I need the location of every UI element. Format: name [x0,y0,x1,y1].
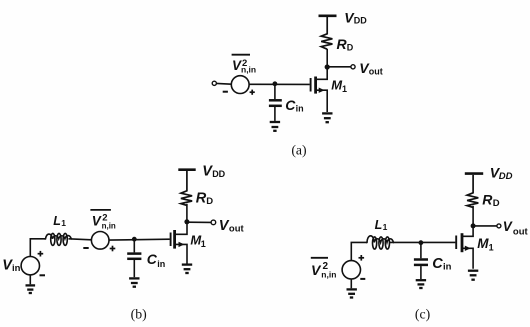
label M1 (b) [190,233,205,250]
svg-text:D: D [347,42,354,52]
svg-text:in: in [157,259,165,269]
svg-text:1: 1 [201,239,206,249]
label M1 (c) [477,236,493,253]
wire noise source to gate with node (b) [109,238,170,241]
ground at noise source (c) [347,289,357,297]
label L1 (c) [375,218,388,232]
capacitor Cin (b) [127,240,141,277]
svg-text:R: R [196,190,207,206]
label VDD (c) [490,164,513,182]
ground at M1 source (b) [182,265,192,273]
noise voltage source Vn,in (b) [91,232,109,250]
node at Cin (c) [419,240,424,245]
label - polarity (c) [360,278,365,280]
wire inductor to noise source (b) [69,239,92,240]
wire resistor to node (c) [472,206,474,225]
wire node to Vout terminal (b) [187,221,211,223]
label L1 (b) [53,214,66,228]
voltage source Vin (b) [21,257,39,275]
Vout terminal (c) [497,224,501,228]
svg-text:1: 1 [383,222,388,232]
VDD rail (c) [465,172,483,175]
drain node (a) [325,64,330,69]
label M1 (a) [331,77,347,94]
wire terminal to source (a) [217,82,232,85]
svg-text:D: D [206,196,213,207]
capacitor Cin (a) [269,85,282,121]
svg-text:1: 1 [342,84,347,94]
label Vn,in^2 (a) [232,55,257,75]
transistor M1 (a) [311,68,328,112]
svg-text:C: C [147,251,158,267]
svg-text:L: L [375,218,383,232]
svg-text:in: in [296,104,304,114]
wire Vin to inductor (b) [30,239,46,257]
node at Cin (a) [273,81,278,86]
label + polarity (a) [250,90,255,95]
label Cin (b) [147,251,166,269]
svg-text:V: V [503,219,513,234]
svg-text:M: M [477,236,489,251]
label RD (b) [196,190,214,207]
label + polarity (c) [359,255,365,261]
capacitor Cin (c) [414,244,428,279]
drain node (b) [184,219,189,224]
label + polarity Vin (b) [38,251,44,257]
svg-text:out: out [369,67,383,77]
svg-text:(b): (b) [131,307,147,323]
wire node to Vout terminal (c) [473,225,497,227]
node at Cin (b) [132,237,137,242]
label - polarity Vin (b) [40,274,46,276]
input terminal (a) [212,81,216,85]
svg-text:out: out [513,227,529,238]
label Cin (a) [285,97,303,114]
ground at M1 source (c) [468,271,478,280]
wire noise source to inductor (c) [351,242,367,260]
svg-text:n,in: n,in [241,65,256,75]
inductor L1 (b) [45,233,73,245]
noise voltage source Vn,in (c) [342,261,360,279]
resistor RD (b) [181,171,192,205]
svg-text:1: 1 [489,243,494,253]
transistor M1 (c) [456,227,473,269]
label Vout (c) [503,219,529,238]
wire resistor to node (b) [186,204,188,221]
VDD rail (a) [319,15,337,18]
wire node to Vout terminal (a) [327,66,351,68]
svg-text:in: in [443,261,452,272]
svg-text:in: in [12,263,21,274]
svg-text:DD: DD [354,16,367,26]
wire noise source to ground (c) [350,279,352,288]
svg-text:(a): (a) [291,143,306,159]
Vout terminal (a) [351,65,355,69]
svg-text:(c): (c) [415,307,430,323]
inductor L1 (c) [366,236,394,249]
label + polarity noise (b) [110,246,116,252]
svg-text:DD: DD [499,171,513,182]
wire Vin to ground (b) [29,275,31,284]
label Vn,in^2 (b) [90,210,116,231]
svg-text:n,in: n,in [102,222,116,231]
ground at Cin (b) [129,278,139,286]
svg-text:DD: DD [212,169,225,179]
VDD rail (b) [178,168,195,171]
label VDD (a) [344,10,367,26]
ground at Vin (b) [26,285,36,293]
wire inductor to gate with node (c) [390,241,455,243]
label - polarity noise (b) [83,247,88,249]
svg-text:n,in: n,in [321,269,336,279]
label Vout (a) [359,60,383,77]
label Vout (b) [219,218,245,235]
svg-text:D: D [493,198,500,209]
label Vin (b) [2,257,20,273]
wire source to gate with node (a) [249,83,310,85]
svg-text:R: R [482,191,493,207]
svg-text:V: V [92,214,102,229]
wire resistor to node (a) [326,49,328,66]
svg-text:L: L [53,214,61,228]
Vout terminal (b) [211,220,216,225]
label RD (c) [482,191,500,209]
svg-text:1: 1 [61,218,66,228]
ground at Cin (c) [416,280,426,288]
label Vn,in^2 (c) [311,258,337,280]
svg-text:out: out [229,224,245,235]
noise voltage source Vn,in (a) [231,76,249,94]
svg-text:C: C [432,256,443,272]
label Cin (c) [432,256,451,273]
ground at M1 source (a) [322,113,332,122]
label RD (a) [337,36,354,52]
label VDD (b) [202,164,225,180]
ground at Cin (a) [270,122,280,131]
drain node (c) [471,223,476,228]
resistor RD (a) [321,17,332,49]
label - polarity (a) [223,91,228,93]
resistor RD (c) [467,175,478,208]
transistor M1 (b) [171,223,187,264]
